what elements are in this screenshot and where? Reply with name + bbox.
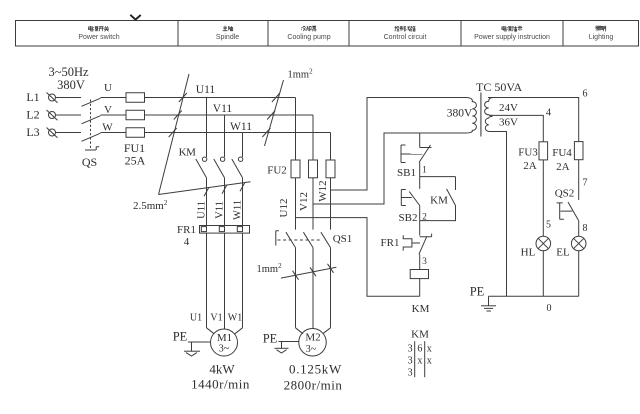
terminal L3 [26,125,57,139]
svg-text:3~50Hz: 3~50Hz [48,65,89,79]
svg-text:1440r/min: 1440r/min [191,377,250,392]
svg-text:2A: 2A [556,161,570,173]
lamp EL [556,236,586,258]
svg-text:5: 5 [546,220,551,231]
wire FU1 to branches row3 [145,132,331,134]
svg-text:W12: W12 [317,180,329,201]
svg-text:M2: M2 [305,332,320,344]
svg-text:V1: V1 [210,313,222,324]
svg-text:4kW: 4kW [209,362,235,377]
wire L2 to QS [56,114,82,116]
svg-text:x: x [427,356,432,367]
terminal L1 [26,90,57,104]
svg-text:V11: V11 [213,103,233,115]
svg-text:x: x [417,356,422,367]
wire HL to zero rail [542,251,544,296]
svg-text:Spindle: Spindle [216,34,239,41]
motor M1 [191,329,250,392]
wire QS to FU1 row2 [101,114,127,116]
svg-text:FR1: FR1 [381,237,400,249]
svg-text:3~: 3~ [306,344,317,355]
svg-text:V11: V11 [215,201,226,219]
svg-text:0: 0 [547,303,552,314]
wire rail to SB1 [419,133,421,148]
wire secondary bottom to zero rail [489,132,507,297]
svg-text:2.5mm2: 2.5mm2 [133,199,168,212]
header column 2: Spindle [216,26,239,41]
svg-text:FR1: FR1 [177,224,196,236]
wire FU1 to branches row2 [145,114,314,116]
svg-text:HL: HL [521,247,536,259]
wire row3 drop to KM [242,133,244,158]
svg-text:PE: PE [263,332,278,346]
svg-text:1: 1 [422,166,427,176]
svg-text:PE: PE [470,285,485,299]
svg-text:FU2: FU2 [267,165,287,177]
svg-text:Control circuit: Control circuit [384,34,427,41]
svg-text:FU4: FU4 [552,147,572,159]
ground PE at zero rail [470,285,496,312]
wire SB2 to FR1 contact [419,206,421,236]
svg-text:KM: KM [411,329,429,341]
svg-text:Lighting: Lighting [589,34,614,41]
wire V12 tap to control rail [313,133,466,204]
wire KM to FR1 heaters [207,178,243,226]
header column 3: Cooling pump [287,26,330,41]
wire row3 to cooling branch drop [330,133,332,161]
svg-text:6: 6 [583,89,588,100]
svg-text:U1: U1 [190,313,202,324]
svg-text:6: 6 [417,343,422,354]
svg-text:Power switch: Power switch [78,34,119,41]
svg-text:7: 7 [583,178,588,189]
svg-text:Power supply instruction: Power supply instruction [474,34,550,41]
wire FU3 to HL [542,160,544,236]
cable mark 1mm2 lower [257,262,337,280]
title table frame [16,21,639,47]
supply label 3~50Hz 380V [48,65,89,92]
svg-text:W11: W11 [230,121,252,133]
svg-text:M1: M1 [217,332,232,344]
pushbutton SB2 [399,190,420,225]
wire QS to FU1 row1 [101,97,127,99]
svg-text:QS1: QS1 [333,233,353,245]
svg-text:36V: 36V [499,117,518,129]
svg-text:L2: L2 [26,108,39,122]
svg-text:SB2: SB2 [399,212,418,224]
pushbutton SB1 [397,145,431,179]
wire FU1 to branches row1 [145,97,296,99]
header column 4: Control circuit [384,26,427,41]
svg-text:Cooling pump: Cooling pump [287,34,330,41]
wire row2 to cooling branch drop [312,115,314,160]
svg-text:FU3: FU3 [518,147,538,159]
wire secondary tap to FU3 [489,115,543,141]
svg-text:U11: U11 [197,201,208,219]
terminal L2 [26,108,57,122]
svg-text:SB1: SB1 [397,167,416,179]
switch QS2 [555,188,579,221]
wire row1 drop to KM [206,98,208,158]
ground PE at M1 [173,330,211,357]
wire FR1 to KM coil [419,254,421,269]
svg-text:8: 8 [583,223,588,234]
svg-text:KM: KM [412,303,430,315]
svg-text:L1: L1 [26,90,39,104]
svg-text:1mm2: 1mm2 [288,68,314,81]
svg-text:W: W [102,122,113,134]
svg-text:3~: 3~ [219,344,230,355]
svg-text:L3: L3 [26,125,39,139]
contactor KM coil [410,270,429,316]
svg-text:3: 3 [408,343,413,354]
lamp HL [521,236,551,258]
svg-text:U12: U12 [278,199,290,218]
contactor KM main contacts [179,147,243,178]
svg-text:PE: PE [173,330,188,344]
svg-text:U: U [104,82,112,94]
zero rail wire [489,295,579,297]
fuse FU4 [552,142,583,173]
svg-text:4: 4 [184,236,190,248]
svg-text:TC 50VA: TC 50VA [476,80,522,94]
wire FR1 to motor M1 [207,233,243,334]
svg-text:W11: W11 [233,200,244,220]
svg-text:KM: KM [179,147,196,159]
thermal relay FR1 contact [381,234,432,255]
wire W12 tap to transformer primary top [331,98,468,191]
svg-text:V12: V12 [298,192,310,211]
svg-text:U11: U11 [196,84,216,96]
wire FU2 to QS1 [296,178,331,230]
header column 5: Power supply instruction [474,26,550,41]
svg-text:25A: 25A [125,154,146,168]
check mark on table top [130,15,140,20]
KM contact usage table [408,329,432,379]
thermal relay FR1 heater elements [177,224,249,248]
main switch QS [82,98,101,169]
svg-text:W1: W1 [228,313,242,324]
fuse FU2 [267,160,335,178]
cable mark 2.5mm2 [133,74,251,212]
wire U12 tap to coil return [296,218,420,297]
svg-text:3: 3 [408,368,413,379]
cable mark 1mm2 top [262,68,313,147]
svg-text:3: 3 [422,257,427,267]
svg-text:QS2: QS2 [555,188,575,200]
fuse FU1 [124,93,146,168]
svg-text:2A: 2A [523,160,537,172]
svg-text:380V: 380V [447,108,473,120]
svg-text:EL: EL [556,247,570,259]
svg-text:QS: QS [82,155,97,169]
wire L3 to QS [56,132,82,134]
fuse FU3 [518,142,547,172]
svg-text:0.125kW: 0.125kW [289,362,342,377]
header column 1: Power switch [78,26,119,41]
wire row1 to cooling branch drop [295,98,297,161]
wire FU4 to QS2 [578,160,580,200]
switch QS1 [276,231,352,248]
svg-text:3: 3 [408,356,413,367]
contactor KM auxiliary contact [420,189,456,221]
svg-text:1mm2: 1mm2 [257,262,283,275]
svg-text:4: 4 [546,108,552,119]
svg-text:KM: KM [430,194,448,206]
wire EL to zero rail [578,251,580,296]
wire QS1 to motor M2 [296,248,331,334]
wire QS to FU1 row3 [101,132,127,134]
wire SB1 to SB2 and KM branch [420,163,456,191]
motor M2 [284,329,343,393]
wire QS2 to EL [578,220,580,236]
svg-text:380V: 380V [57,78,85,92]
wire secondary top to lamp branch [488,98,579,142]
wire KM coil to return [419,279,421,297]
svg-text:2800r/min: 2800r/min [284,378,343,393]
ground PE at M2 [263,332,299,354]
svg-text:x: x [427,343,432,354]
wire L1 to QS [56,97,82,99]
wire row2 drop to KM [224,115,226,157]
transformer TC [447,80,523,137]
svg-text:24V: 24V [499,102,518,114]
svg-text:V: V [104,104,112,116]
header column 6: Lighting [589,26,614,41]
